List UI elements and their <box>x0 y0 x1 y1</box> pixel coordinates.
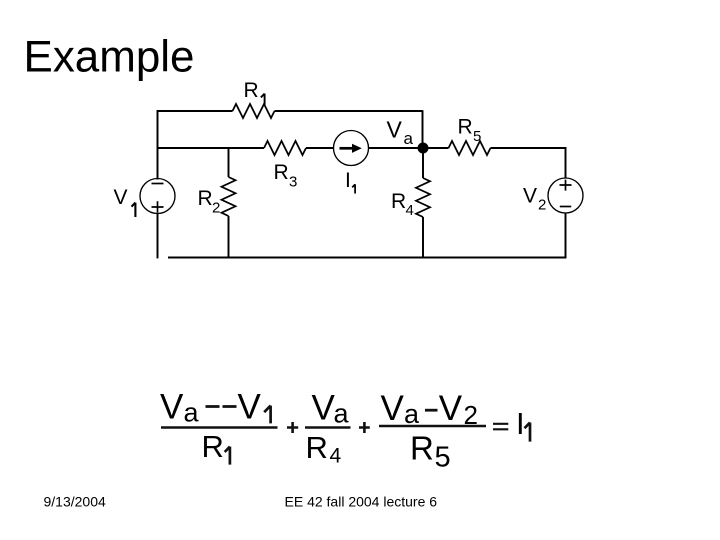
svg-text:5: 5 <box>435 441 451 473</box>
svg-text:a: a <box>334 399 350 429</box>
svg-text:R: R <box>410 430 434 467</box>
voltage source V2 <box>548 178 583 213</box>
wire: R2 branch lower stub <box>228 216 230 258</box>
equation fraction 3 denominator: R5 <box>410 430 451 474</box>
equation result I1 <box>516 406 530 442</box>
svg-text:V: V <box>160 388 184 427</box>
resistor R5 <box>449 141 491 155</box>
label R5 <box>458 116 482 146</box>
equation fraction 1 numerator: Va - -V1 <box>160 388 271 428</box>
label V1 <box>114 186 136 217</box>
node Va junction dot <box>418 143 429 154</box>
wire: mid rail R3 to I1 <box>306 147 334 149</box>
footer date <box>44 494 106 510</box>
svg-text:V: V <box>523 185 537 208</box>
svg-text:V: V <box>381 389 405 428</box>
equation equals sign <box>493 424 508 430</box>
svg-text:R: R <box>202 429 224 464</box>
svg-text:Example: Example <box>24 33 195 82</box>
wire: bottom rail <box>168 257 566 259</box>
label R1 <box>244 79 265 105</box>
svg-text:5: 5 <box>473 128 481 145</box>
svg-text:a: a <box>184 398 200 428</box>
label R4 <box>391 190 414 219</box>
equation fraction 3 numerator: Va - V2 <box>381 389 478 430</box>
svg-text:V: V <box>238 388 262 427</box>
svg-text:R: R <box>458 116 473 139</box>
svg-text:2: 2 <box>538 197 546 214</box>
resistor R3 <box>264 141 306 155</box>
equation fraction 2 numerator: Va <box>312 389 350 429</box>
label I1 <box>345 169 355 194</box>
wire: R5 to right vertical <box>491 147 567 149</box>
svg-text:V: V <box>387 117 403 143</box>
equation plus sign 2 <box>359 422 370 433</box>
svg-text:a: a <box>404 399 420 429</box>
svg-text:R: R <box>391 190 406 213</box>
svg-text:R: R <box>198 187 213 210</box>
svg-text:9/13/2004: 9/13/2004 <box>44 494 106 510</box>
wire: node Va to R5 <box>429 147 449 149</box>
voltage source V1 <box>140 179 175 214</box>
wire: V1 bottom stub <box>157 213 159 258</box>
resistor R1 <box>233 104 275 118</box>
equation plus sign 1 <box>287 422 298 433</box>
svg-text:I: I <box>345 169 351 192</box>
equation fraction 2 bar <box>305 426 351 428</box>
footer course label <box>285 494 438 510</box>
svg-text:V: V <box>439 389 463 428</box>
svg-text:V: V <box>312 389 336 428</box>
resistor R4 <box>416 178 430 217</box>
wire: top rail right segment <box>275 110 423 112</box>
svg-text:4: 4 <box>406 202 414 219</box>
svg-text:3: 3 <box>289 174 297 191</box>
svg-text:R: R <box>244 79 259 102</box>
wire: top rail left segment <box>157 110 233 112</box>
wire: R4 branch upper stub <box>422 152 424 178</box>
svg-text:2: 2 <box>212 200 220 217</box>
svg-text:V: V <box>114 186 128 209</box>
equation fraction 3 bar <box>379 425 486 428</box>
wire: left vertical from top rail down to V1 top <box>157 110 159 179</box>
wire: R4 branch lower stub <box>422 217 424 258</box>
equation fraction 1 bar <box>161 426 278 428</box>
wire: drop from top rail to node Va <box>422 110 424 148</box>
resistor R2 <box>222 177 236 216</box>
label V2 <box>523 185 546 214</box>
label R2 <box>198 187 221 217</box>
svg-text:4: 4 <box>330 445 342 468</box>
svg-text:a: a <box>404 129 414 148</box>
svg-text:R: R <box>274 161 289 184</box>
svg-text:EE 42 fall 2004 lecture 6: EE 42 fall 2004 lecture 6 <box>285 494 438 510</box>
wire: mid rail from V1 branch to R3 <box>157 147 264 149</box>
label Va <box>387 117 414 149</box>
wire: right vertical down to V2 top <box>565 147 567 178</box>
equation fraction 2 denominator: R4 <box>306 430 342 468</box>
wire: V2 bottom to bottom rail <box>565 213 567 258</box>
label R3 <box>274 161 298 191</box>
svg-text:I: I <box>516 406 525 441</box>
wire: R2 branch upper stub <box>228 147 230 177</box>
title "Example" <box>24 33 195 82</box>
svg-text:R: R <box>306 430 328 465</box>
equation fraction 1 denominator: R1 <box>202 429 230 465</box>
wire: I1 to node Va <box>369 147 419 149</box>
current source I1 <box>334 131 369 166</box>
